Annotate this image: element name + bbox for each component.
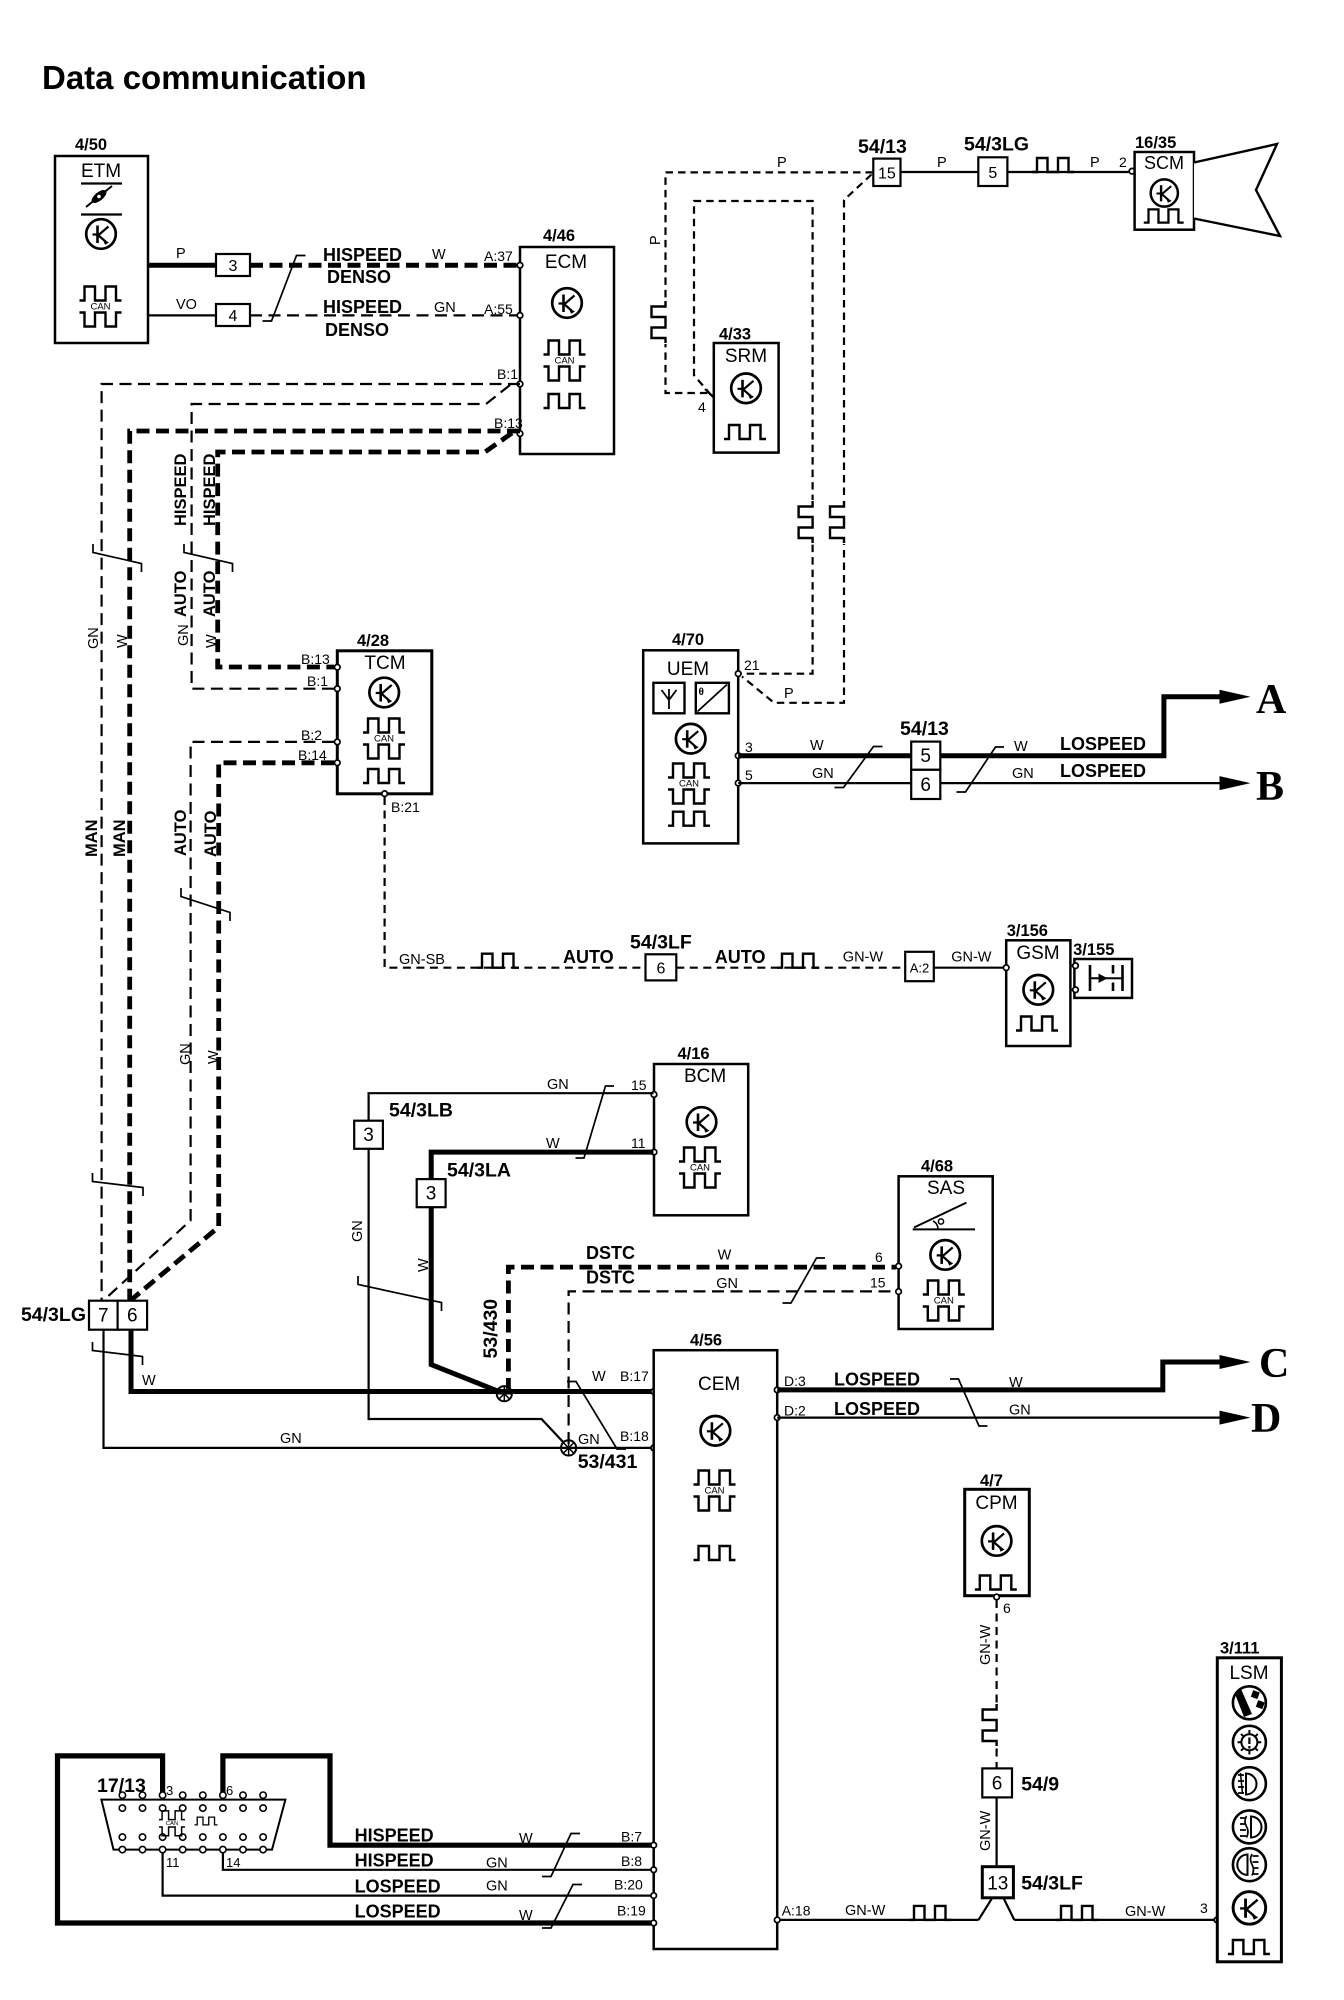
wire: TCM B:21 AUTO GN-SB to 54/3LF 6 (thin dashed) bbox=[385, 797, 646, 968]
twisted pair marker BCM pair bbox=[576, 1086, 615, 1158]
twisted pair marker L3b/L4b bbox=[181, 888, 230, 921]
svg-text:B:2: B:2 bbox=[301, 727, 322, 743]
svg-text:GN-W: GN-W bbox=[1125, 1904, 1166, 1920]
svg-text:HISPEED: HISPEED bbox=[201, 453, 219, 526]
wire: ETM pin VO to connector 4 (thin) bbox=[148, 297, 216, 315]
svg-text:2: 2 bbox=[1119, 154, 1127, 170]
connector box 3 54/3LB (inline) bbox=[354, 1099, 453, 1148]
CEM CAN symbol bbox=[694, 1471, 736, 1511]
svg-text:54/13: 54/13 bbox=[900, 718, 949, 740]
ECM pin B:1 bbox=[497, 366, 523, 387]
wire: 54/9 to 54/3LF 13 (thin solid) GN-W bbox=[978, 1797, 997, 1866]
twisted pair marker before CEM B:17/B:18 bbox=[567, 1382, 626, 1450]
arrow D bbox=[1220, 1396, 1282, 1442]
svg-text:LSM: LSM bbox=[1229, 1663, 1268, 1684]
svg-text:54/3LG: 54/3LG bbox=[964, 134, 1029, 156]
svg-text:B:19: B:19 bbox=[617, 1903, 646, 1919]
svg-text:16/35: 16/35 bbox=[1135, 134, 1176, 152]
svg-text:GN: GN bbox=[176, 624, 192, 646]
connector box 4 (inline) bbox=[216, 304, 250, 326]
labels HISPEED GN B:8 bbox=[355, 1850, 657, 1872]
svg-text:3: 3 bbox=[745, 739, 753, 755]
UEM pin 21 bbox=[735, 657, 759, 677]
svg-text:TCM: TCM bbox=[364, 653, 405, 674]
svg-text:4: 4 bbox=[229, 308, 238, 325]
wire: 54/3LA to BCM 11 (thick solid) W bbox=[431, 1136, 653, 1179]
svg-text:VO: VO bbox=[176, 297, 197, 313]
SCM K-line symbol bbox=[1151, 179, 1178, 206]
twisted pair marker GN/W verticals bbox=[358, 1276, 442, 1311]
svg-text:3: 3 bbox=[363, 1125, 374, 1146]
svg-text:CEM: CEM bbox=[698, 1374, 740, 1395]
svg-text:SAS: SAS bbox=[927, 1178, 965, 1199]
connector box 15 54/13 (inline) bbox=[858, 136, 907, 186]
svg-text:4/56: 4/56 bbox=[690, 1332, 722, 1350]
svg-text:GN-W: GN-W bbox=[843, 950, 884, 966]
svg-text:5: 5 bbox=[745, 767, 753, 783]
svg-text:HISPEED: HISPEED bbox=[355, 1850, 434, 1870]
svg-text:GN-SB: GN-SB bbox=[399, 952, 445, 968]
svg-text:P: P bbox=[937, 155, 947, 171]
17/13 inner wave symbol bbox=[194, 1817, 217, 1825]
ECM pin A:37 bbox=[517, 263, 523, 269]
wire: 54/3LB down to junction 53/431 (thin solid) GN bbox=[350, 1149, 569, 1448]
connector box 3 (inline) bbox=[216, 254, 250, 276]
SCM pin 2 bbox=[1129, 168, 1135, 174]
LSM headlight icon bbox=[1233, 1767, 1266, 1800]
svg-text:AUTO: AUTO bbox=[715, 947, 766, 967]
svg-text:6: 6 bbox=[656, 961, 665, 978]
SAS pin 6 bbox=[875, 1249, 901, 1269]
TCM CAN symbol bbox=[363, 719, 405, 759]
UEM temperature icon bbox=[696, 683, 729, 714]
wire: 17/13 pin14 to CEM B:8 HISPEED GN (thin) bbox=[223, 1850, 654, 1870]
wave symbol on SCM wire bbox=[1032, 158, 1074, 172]
svg-text:7: 7 bbox=[98, 1306, 109, 1327]
wave symbol on CPM wire bbox=[983, 1703, 1000, 1747]
svg-text:B:20: B:20 bbox=[614, 1877, 643, 1893]
ETM K-line symbol bbox=[86, 219, 116, 249]
svg-text:W: W bbox=[810, 738, 824, 754]
wave symbol on AUTO wire right bbox=[777, 954, 819, 968]
connector box 6 54/3LF (inline) bbox=[630, 932, 692, 981]
svg-text:6: 6 bbox=[1003, 1600, 1011, 1616]
connector box 5 54/3LG (inline) bbox=[964, 134, 1029, 186]
wire DSTC W: 53/430 to SAS 6 (thick dashed) bbox=[508, 1243, 896, 1391]
svg-text:15: 15 bbox=[870, 1275, 886, 1291]
svg-text:B:17: B:17 bbox=[620, 1368, 649, 1384]
labels LOSPEED GN B:20 bbox=[355, 1876, 657, 1898]
svg-text:54/3LF: 54/3LF bbox=[1021, 1873, 1083, 1895]
svg-text:P: P bbox=[176, 246, 186, 262]
wire P: 54/13 pin15 to UEM pin21 (thin dashed) bbox=[742, 175, 872, 703]
17/13 pin circles bottom row bbox=[119, 1834, 266, 1853]
wire: HISPEED DENSO GN to ECM A:55 (thin dashed) bbox=[250, 297, 520, 340]
ECM module 4/46 box bbox=[520, 227, 614, 454]
CPM pin 6 bbox=[994, 1594, 1011, 1616]
antenna unit 3/155 box bbox=[1073, 941, 1132, 998]
svg-text:3: 3 bbox=[229, 258, 238, 275]
wire: CPM 6 GN-W to 54/9 (thin dashed) bbox=[978, 1600, 997, 1768]
svg-text:3: 3 bbox=[166, 1783, 173, 1798]
ECM K-line symbol bbox=[552, 288, 582, 318]
svg-text:W: W bbox=[1014, 739, 1028, 755]
svg-text:6: 6 bbox=[920, 775, 931, 796]
LSM single wave symbol bbox=[1228, 1940, 1270, 1954]
svg-text:GN: GN bbox=[486, 1879, 508, 1895]
wire: HISPEED DENSO W to ECM A:37 (thick dashed) bbox=[250, 245, 520, 287]
svg-text:A:18: A:18 bbox=[782, 1903, 811, 1919]
SRM single wave symbol bbox=[724, 425, 766, 439]
svg-text:4/7: 4/7 bbox=[980, 1472, 1003, 1490]
svg-text:14: 14 bbox=[226, 1855, 240, 1870]
connector 54/13 boxes 5/6 (inline) bbox=[900, 718, 949, 799]
svg-text:ETM: ETM bbox=[81, 161, 121, 182]
svg-text:3: 3 bbox=[426, 1184, 437, 1205]
svg-text:W: W bbox=[592, 1369, 606, 1385]
UEM antenna icon bbox=[653, 683, 684, 714]
svg-text:6: 6 bbox=[226, 1783, 233, 1798]
UEM module 4/70 box bbox=[643, 631, 738, 843]
arrow A bbox=[1220, 677, 1288, 723]
svg-text:AUTO: AUTO bbox=[172, 570, 190, 617]
wave symbol on LSM wire bbox=[1056, 1906, 1098, 1920]
wire: 54/3LB to BCM 15 (thin solid) GN bbox=[369, 1077, 654, 1121]
svg-text:4/50: 4/50 bbox=[75, 136, 107, 154]
connector 54/3LG boxes 7/6 (inline) bbox=[21, 1301, 147, 1330]
LSM parking-light icon bbox=[1233, 1726, 1266, 1759]
svg-text:53/431: 53/431 bbox=[578, 1451, 638, 1473]
SCM pennant shape bbox=[1194, 144, 1280, 236]
svg-text:SRM: SRM bbox=[725, 346, 767, 367]
wire: CEM D:2 LOSPEED GN to arrow D (thin) bbox=[774, 1399, 1221, 1421]
wire L3b: TCM B:2 to 54/3LG pin7 (thin dashed) bbox=[104, 742, 334, 1301]
svg-text:54/3LF: 54/3LF bbox=[630, 932, 692, 954]
wire: fork to LSM 3 (thin solid) GN-W bbox=[1014, 1900, 1219, 1923]
svg-text:W: W bbox=[416, 1258, 432, 1272]
svg-text:6: 6 bbox=[127, 1306, 138, 1327]
wire: 17/13 pin6 loop to CEM B:7 HISPEED W (thick) bbox=[223, 1756, 654, 1845]
svg-text:GN: GN bbox=[812, 766, 834, 782]
svg-text:W: W bbox=[519, 1908, 533, 1924]
wave symbol on P wire x=812.6 bbox=[799, 500, 816, 544]
svg-text:GSM: GSM bbox=[1016, 943, 1059, 964]
CEM module 4/56 box bbox=[654, 1332, 778, 1949]
CPM K-line symbol bbox=[982, 1526, 1012, 1556]
svg-text:B:8: B:8 bbox=[621, 1853, 642, 1869]
twisted pair marker L1/L2 upper bbox=[93, 544, 142, 572]
svg-text:DENSO: DENSO bbox=[325, 320, 389, 340]
SAS CAN symbol bbox=[923, 1281, 965, 1321]
svg-text:LOSPEED: LOSPEED bbox=[1060, 734, 1146, 754]
wave symbol on P wire vertical bbox=[652, 300, 669, 344]
arrow C bbox=[1220, 1341, 1290, 1387]
svg-text:DSTC: DSTC bbox=[586, 1243, 635, 1263]
SCM single wave symbol bbox=[1144, 209, 1184, 222]
svg-text:GN-W: GN-W bbox=[951, 950, 992, 966]
svg-text:GN: GN bbox=[280, 1431, 302, 1447]
svg-text:MAN: MAN bbox=[111, 819, 129, 857]
svg-text:3/155: 3/155 bbox=[1073, 941, 1114, 959]
GSM module 3/156 box bbox=[1006, 922, 1070, 1046]
svg-text:GN-W: GN-W bbox=[978, 1624, 994, 1665]
svg-text:4/46: 4/46 bbox=[543, 227, 575, 245]
junction 53/430 bbox=[480, 1299, 512, 1402]
svg-text:UEM: UEM bbox=[667, 659, 709, 680]
wire: 54/3LG 7 GN to CEM B:18 (thin solid) bbox=[104, 1330, 654, 1448]
labels HISPEED W B:7 bbox=[355, 1826, 657, 1848]
wire P: UEM pin21 to SRM pin4 (thin dashed) bbox=[694, 201, 813, 674]
svg-text:4/28: 4/28 bbox=[357, 632, 389, 650]
svg-text:4/68: 4/68 bbox=[921, 1158, 953, 1176]
CPM single wave symbol bbox=[975, 1576, 1017, 1590]
wire DSTC GN: 53/431 to SAS 15 (thin dashed) bbox=[569, 1268, 896, 1445]
svg-text:GN: GN bbox=[486, 1856, 508, 1872]
svg-text:θ: θ bbox=[699, 687, 704, 698]
LSM auto-light icon bbox=[1233, 1686, 1266, 1719]
svg-text:GN: GN bbox=[1012, 766, 1034, 782]
fork wires below 54/3LF bbox=[979, 1898, 1015, 1920]
svg-text:4/33: 4/33 bbox=[719, 326, 751, 344]
SCM module 16/35 box bbox=[1135, 134, 1194, 230]
svg-text:B:1: B:1 bbox=[497, 366, 518, 382]
CEM K-line symbol bbox=[701, 1416, 731, 1446]
UEM single wave symbol bbox=[668, 812, 710, 826]
BCM module 4/16 box bbox=[654, 1045, 748, 1215]
wire: ETM pin P to connector 3 (thick) bbox=[148, 246, 216, 265]
wire: CEM D:3 LOSPEED W to arrow C (thick) bbox=[774, 1362, 1221, 1393]
wave symbol on A:18 wire bbox=[909, 1906, 951, 1920]
wire L1: ECM B:1 to 54/3LG pin7 (thin dashed) bbox=[102, 384, 520, 1300]
svg-text:A: A bbox=[1256, 677, 1287, 723]
GSM pin A:2 bbox=[1003, 965, 1009, 971]
svg-text:D:3: D:3 bbox=[784, 1373, 806, 1389]
svg-text:AUTO: AUTO bbox=[202, 810, 220, 857]
svg-text:11: 11 bbox=[631, 1135, 646, 1151]
svg-text:W: W bbox=[206, 1050, 222, 1064]
svg-text:3/156: 3/156 bbox=[1007, 922, 1048, 940]
GSM single wave symbol bbox=[1016, 1017, 1058, 1031]
UEM K-line symbol bbox=[676, 724, 706, 754]
SAS K-line symbol bbox=[930, 1240, 960, 1270]
SRM module 4/33 box bbox=[714, 326, 779, 453]
twisted pair marker UEM pair left bbox=[835, 747, 883, 788]
wire: AUTO GN-W to connector A:2 (thin dashed) bbox=[676, 947, 905, 968]
svg-text:B:1: B:1 bbox=[307, 673, 328, 689]
17/13 inner CAN symbol bbox=[159, 1811, 185, 1836]
svg-text:B:13: B:13 bbox=[301, 651, 330, 667]
svg-text:15: 15 bbox=[631, 1077, 647, 1093]
LSM front-fog icon bbox=[1233, 1810, 1266, 1843]
LSM rear-fog icon bbox=[1233, 1848, 1266, 1881]
svg-text:15: 15 bbox=[878, 166, 896, 183]
svg-text:6: 6 bbox=[992, 1774, 1003, 1795]
TCM K-line symbol bbox=[369, 678, 399, 708]
svg-text:5: 5 bbox=[988, 165, 997, 182]
svg-text:LOSPEED: LOSPEED bbox=[1060, 761, 1146, 781]
wire L4b: TCM B:14 to 54/3LG pin6 (thick dashed) bbox=[131, 763, 334, 1301]
svg-text:21: 21 bbox=[744, 657, 760, 673]
svg-text:AUTO: AUTO bbox=[172, 809, 190, 856]
svg-text:SCM: SCM bbox=[1144, 153, 1184, 173]
TCM pin B:13 bbox=[301, 651, 340, 670]
svg-text:A:2: A:2 bbox=[910, 961, 930, 976]
GSM K-line symbol bbox=[1024, 975, 1054, 1005]
wire L4: ECM B:13 to TCM B:13 (thick dashed) bbox=[218, 433, 512, 667]
ECM CAN symbol bbox=[544, 341, 586, 381]
BCM pin 11 bbox=[631, 1135, 657, 1155]
TCM pin B:2 bbox=[301, 727, 340, 745]
UEM pin 3 bbox=[735, 739, 753, 759]
svg-text:C: C bbox=[1259, 1341, 1289, 1387]
svg-text:4: 4 bbox=[698, 399, 706, 415]
connector box 3 54/3LA (inline) bbox=[417, 1159, 511, 1207]
wire: 54/13 to 54/3LG 5 (thin solid) P bbox=[901, 155, 979, 172]
svg-text:5: 5 bbox=[920, 746, 931, 767]
svg-text:54/13: 54/13 bbox=[858, 136, 907, 158]
3/155 diode/coupler symbol bbox=[1090, 965, 1123, 991]
svg-text:LOSPEED: LOSPEED bbox=[355, 1902, 441, 1922]
SAS pin 15 bbox=[870, 1275, 901, 1295]
svg-text:HISPEED: HISPEED bbox=[323, 245, 402, 265]
17/13 pin circles top row bbox=[119, 1792, 266, 1811]
svg-text:GN-W: GN-W bbox=[845, 1903, 886, 1919]
svg-text:AUTO: AUTO bbox=[201, 570, 219, 617]
BCM pin 15 bbox=[631, 1077, 657, 1097]
diagnostic connector 17/13 body bbox=[97, 1775, 285, 1850]
labels LOSPEED W B:19 bbox=[355, 1902, 657, 1926]
wire P: 54/13 pin15 to SRM pin4 (thin dashed loop) bbox=[648, 155, 873, 398]
3/155 pin stubs to GSM bbox=[1070, 963, 1078, 993]
svg-text:W: W bbox=[432, 247, 446, 263]
svg-text:P: P bbox=[784, 686, 794, 702]
svg-text:4/16: 4/16 bbox=[678, 1045, 710, 1063]
svg-text:ECM: ECM bbox=[545, 252, 587, 273]
wire: 17/13 pin3 loop to CEM B:19 LOSPEED W (thick) bbox=[58, 1756, 654, 1923]
twisted pair marker B:7/B:8 bbox=[542, 1834, 580, 1877]
SAS module 4/68 box bbox=[899, 1158, 993, 1330]
svg-text:B: B bbox=[1256, 764, 1284, 810]
twisted pair marker ETM pair bbox=[263, 256, 306, 322]
throttle icon bbox=[81, 186, 122, 215]
SRM pin 4 bbox=[698, 389, 714, 415]
twisted pair marker UEM pair right bbox=[957, 747, 1005, 792]
svg-text:54/3LG: 54/3LG bbox=[21, 1304, 86, 1326]
svg-text:P: P bbox=[1090, 155, 1100, 171]
TCM single wave symbol bbox=[363, 769, 405, 783]
svg-text:3: 3 bbox=[1200, 1900, 1208, 1916]
wire: A:2 to GSM (thin solid) GN-W bbox=[934, 950, 1006, 968]
twisted pair marker B:20/B:19 bbox=[542, 1885, 582, 1929]
svg-text:3/111: 3/111 bbox=[1220, 1639, 1259, 1657]
svg-text:GN: GN bbox=[578, 1432, 600, 1448]
TCM pin B:14 bbox=[298, 747, 340, 766]
connector box 6 54/9 (inline) bbox=[982, 1768, 1059, 1797]
SRM K-line symbol bbox=[731, 374, 761, 404]
junction 53/431 bbox=[561, 1440, 637, 1473]
wire: 54/3LA down to junction 53/430 (thick solid) W bbox=[416, 1207, 504, 1394]
svg-text:Data communication: Data communication bbox=[42, 59, 367, 96]
svg-text:6: 6 bbox=[875, 1249, 883, 1265]
svg-text:W: W bbox=[142, 1373, 156, 1389]
TCM pin B:1 bbox=[307, 673, 340, 692]
ECM single wave symbol bbox=[544, 394, 586, 408]
CEM single wave symbol bbox=[694, 1546, 736, 1560]
wire: 54/3LG 5 to SCM pin2 (thin solid) P bbox=[1007, 154, 1130, 172]
svg-text:D:2: D:2 bbox=[784, 1403, 806, 1419]
label GN B:18 bbox=[578, 1428, 657, 1451]
ETM module 4/50 box bbox=[55, 136, 148, 343]
twisted pair marker L1/L2 lower bbox=[93, 1173, 144, 1196]
ETM CAN symbol bbox=[80, 287, 122, 327]
UEM CAN symbol bbox=[668, 764, 710, 804]
connector box 13 54/3LF (inline) bbox=[982, 1867, 1083, 1898]
svg-text:GN: GN bbox=[1009, 1403, 1031, 1419]
svg-text:LOSPEED: LOSPEED bbox=[834, 1370, 920, 1390]
svg-text:P: P bbox=[777, 155, 787, 171]
wire: UEM 3 LOSPEED W to arrow A (thick) bbox=[738, 697, 1221, 756]
svg-text:54/3LA: 54/3LA bbox=[447, 1159, 511, 1181]
LSM K-line symbol bbox=[1233, 1892, 1266, 1925]
arrow B bbox=[1220, 764, 1285, 810]
SAS steering angle icon bbox=[913, 1203, 975, 1230]
svg-text:GN: GN bbox=[716, 1276, 738, 1292]
svg-text:B:21: B:21 bbox=[391, 799, 420, 815]
twisted pair marker L3/L4 upper bbox=[184, 544, 233, 572]
twisted pair marker DSTC pair bbox=[783, 1258, 826, 1303]
svg-text:54/9: 54/9 bbox=[1021, 1773, 1059, 1795]
svg-text:D: D bbox=[1251, 1396, 1281, 1442]
svg-text:W: W bbox=[718, 1248, 732, 1264]
wire: 54/3LG 6 W to CEM B:17 (thick solid) bbox=[131, 1330, 654, 1392]
wire L2: ECM B:13 to 54/3LG pin6 (thick dashed) bbox=[130, 431, 520, 1300]
svg-text:W: W bbox=[546, 1136, 560, 1152]
svg-text:54/3LB: 54/3LB bbox=[389, 1099, 453, 1121]
svg-text:GN: GN bbox=[434, 300, 456, 316]
svg-text:A:55: A:55 bbox=[484, 301, 513, 317]
wire: UEM 5 LOSPEED GN to arrow B (thin) bbox=[738, 761, 1221, 783]
svg-text:GN: GN bbox=[86, 627, 102, 649]
svg-text:B:18: B:18 bbox=[620, 1428, 649, 1444]
svg-text:HISPEED: HISPEED bbox=[323, 297, 402, 317]
svg-text:GN: GN bbox=[547, 1077, 569, 1093]
svg-text:GN: GN bbox=[350, 1220, 366, 1242]
svg-text:W: W bbox=[1009, 1375, 1023, 1391]
svg-text:AUTO: AUTO bbox=[563, 947, 614, 967]
ECM pin A:55 bbox=[517, 313, 523, 319]
svg-text:GN-W: GN-W bbox=[978, 1810, 994, 1851]
CPM module 4/7 box bbox=[965, 1472, 1030, 1596]
LSM module 3/111 box bbox=[1217, 1639, 1281, 1962]
svg-text:GN: GN bbox=[178, 1043, 194, 1065]
svg-text:A:37: A:37 bbox=[484, 248, 513, 264]
ECM pin B:13 bbox=[494, 415, 523, 436]
TCM pin B:21 bbox=[382, 791, 420, 815]
svg-text:DSTC: DSTC bbox=[586, 1268, 635, 1288]
svg-text:LOSPEED: LOSPEED bbox=[355, 1876, 441, 1896]
svg-text:13: 13 bbox=[987, 1874, 1008, 1895]
wire L3: ECM B:1 to TCM B:1 (thin dashed) bbox=[192, 385, 510, 689]
svg-text:CPM: CPM bbox=[975, 1493, 1017, 1514]
17/13 pin numbers bbox=[166, 1783, 240, 1870]
svg-text:DENSO: DENSO bbox=[327, 267, 391, 287]
svg-text:11: 11 bbox=[166, 1855, 180, 1870]
svg-text:B:14: B:14 bbox=[298, 747, 327, 763]
wave symbol on AUTO wire bbox=[477, 954, 519, 968]
BCM CAN symbol bbox=[679, 1148, 721, 1188]
svg-text:B:7: B:7 bbox=[621, 1829, 642, 1845]
wire: 17/13 pin11 to CEM B:20 LOSPEED GN (thin) bbox=[163, 1850, 654, 1896]
